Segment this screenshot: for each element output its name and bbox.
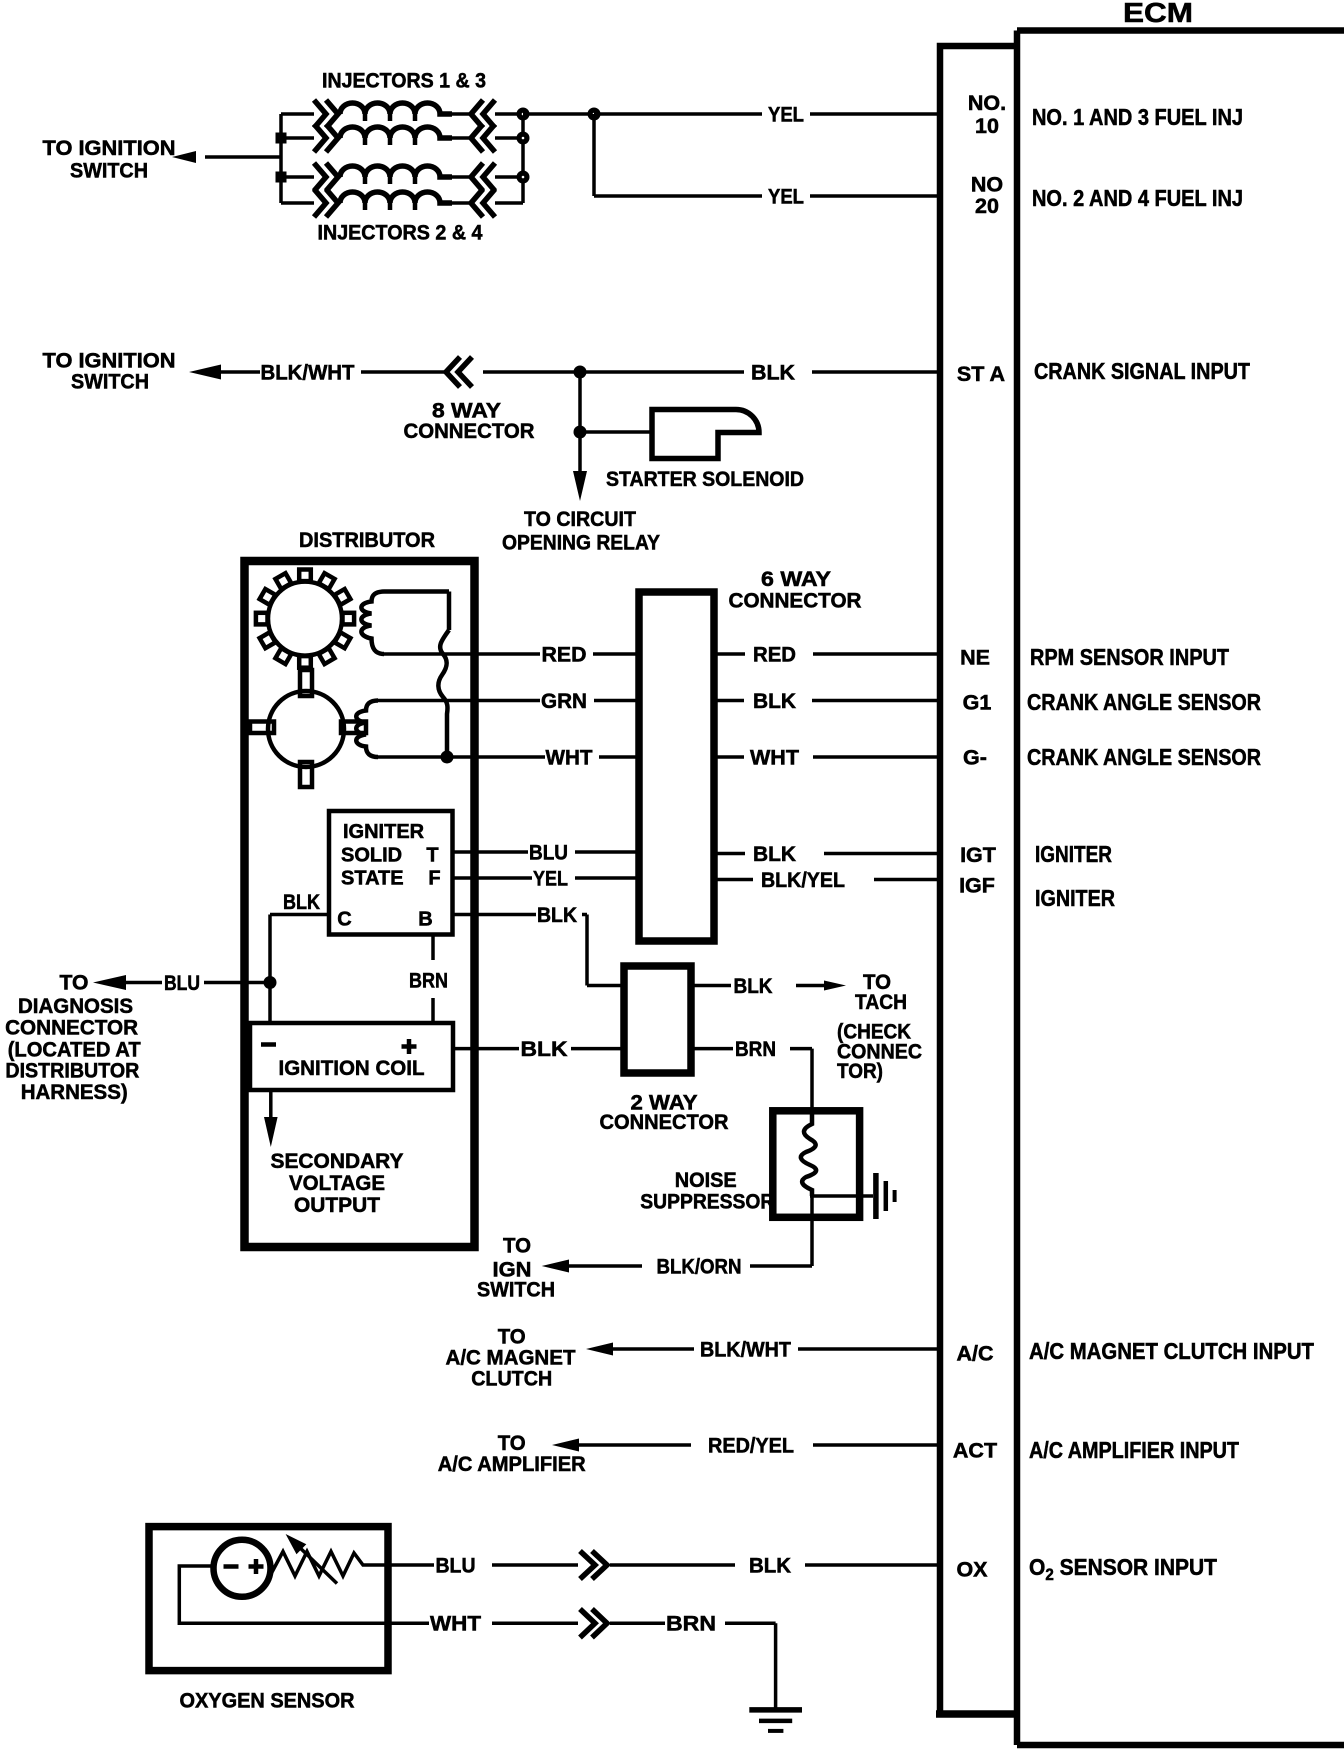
svg-text:CRANK ANGLE SENSOR: CRANK ANGLE SENSOR [1027, 689, 1261, 715]
wire BLK/YEL to pin IGF [714, 878, 940, 882]
svg-text:DISTRIBUTOR: DISTRIBUTOR [299, 528, 435, 552]
svg-text:BLK/WHT: BLK/WHT [261, 361, 355, 385]
svg-text:YEL: YEL [768, 103, 804, 127]
svg-text:BRN: BRN [666, 1612, 716, 1636]
injector supply bus (left) [279, 114, 283, 203]
oxygen sensor box [149, 1527, 388, 1671]
svg-text:RED: RED [542, 643, 587, 667]
svg-text:YEL: YEL [768, 185, 804, 209]
wire BLU (igniter T) [453, 850, 640, 854]
arrow secondary voltage output [264, 1117, 278, 1147]
svg-text:CONNECTOR: CONNECTOR [5, 1016, 138, 1040]
wire BLK to pin OX [610, 1563, 940, 1567]
sensor cell circle [214, 1540, 271, 1597]
arrow to tach [824, 981, 846, 991]
svg-text:A/C: A/C [956, 1342, 993, 1366]
junction square row2 [276, 133, 287, 144]
wire bus to injector 2 [281, 175, 314, 179]
svg-text:NE: NE [960, 646, 990, 670]
svg-text:OUTPUT: OUTPUT [294, 1193, 380, 1217]
wire BLK to pin IGT [714, 852, 940, 856]
coil leg ticks (injector 3) [365, 138, 415, 145]
sensor resistor element [272, 1552, 435, 1577]
svg-text:BLK: BLK [749, 1554, 791, 1578]
svg-text:T: T [426, 845, 438, 867]
wire BLK/WHT to pin A/C [612, 1347, 940, 1351]
svg-text:RPM SENSOR INPUT: RPM SENSOR INPUT [1030, 644, 1230, 670]
suppressor coil element [801, 1111, 816, 1196]
connector chevrons right (injector 2) [471, 163, 495, 191]
svg-text:A/C MAGNET CLUTCH INPUT: A/C MAGNET CLUTCH INPUT [1029, 1338, 1315, 1364]
wire BLK to pin G1 [714, 699, 940, 703]
svg-text:BRN: BRN [409, 969, 448, 993]
svg-text:CLUTCH: CLUTCH [471, 1367, 552, 1391]
svg-text:OXYGEN SENSOR: OXYGEN SENSOR [180, 1689, 355, 1713]
wire YEL to pin NO.10 [594, 112, 940, 116]
svg-text:O2 SENSOR INPUT: O2 SENSOR INPUT [1029, 1554, 1218, 1584]
wire BRN to ground [610, 1623, 776, 1708]
svg-text:NO. 1 AND 3 FUEL INJ: NO. 1 AND 3 FUEL INJ [1032, 104, 1243, 130]
chevron connector (BLU row) [580, 1551, 607, 1579]
coil leg ticks (injector 4) [365, 203, 415, 210]
svg-text:BLK: BLK [751, 361, 795, 385]
wire to ignition switch (top) [205, 155, 281, 159]
junction square row3 [276, 172, 287, 183]
wire BLK to tach [691, 984, 828, 988]
svg-text:HARNESS): HARNESS) [21, 1080, 128, 1104]
svg-text:SWITCH: SWITCH [70, 159, 148, 183]
svg-text:CRANK SIGNAL INPUT: CRANK SIGNAL INPUT [1034, 358, 1251, 384]
wire to ground [810, 1194, 873, 1198]
svg-text:STARTER SOLENOID: STARTER SOLENOID [606, 467, 804, 491]
ignition coil box [250, 1023, 453, 1090]
svg-text:GRN: GRN [541, 689, 587, 713]
svg-text:INJECTORS 2 & 4: INJECTORS 2 & 4 [318, 221, 483, 245]
rotor [250, 670, 366, 787]
wire coil to right connector (injector 2) [452, 175, 471, 179]
svg-text:CONNECTOR: CONNECTOR [600, 1110, 729, 1134]
svg-text:BLK: BLK [521, 1037, 569, 1061]
arrow to diagnosis connector [93, 975, 126, 990]
wire RED to pin NE [714, 652, 940, 656]
svg-text:YEL: YEL [533, 867, 568, 891]
injector 3 row [281, 124, 523, 152]
svg-text:BRN: BRN [735, 1037, 776, 1061]
svg-text:IGNITER: IGNITER [343, 821, 425, 843]
svg-text:BLU: BLU [164, 971, 200, 995]
arrow to ignition switch (top) [172, 151, 196, 163]
svg-text:TO: TO [503, 1234, 531, 1258]
resistor arrow [295, 1543, 337, 1584]
svg-text:DIAGNOSIS: DIAGNOSIS [18, 994, 133, 1018]
wire BLU to chevron [492, 1563, 578, 1567]
svg-text:VOLTAGE: VOLTAGE [289, 1171, 385, 1195]
svg-text:ECM: ECM [1123, 0, 1193, 28]
svg-text:INJECTORS 1 & 3: INJECTORS 1 & 3 [322, 69, 486, 93]
wire bus to injector 3 [281, 136, 314, 140]
- terminal [224, 1564, 239, 1569]
distributor box [245, 561, 475, 1247]
arrow to ign switch [542, 1260, 569, 1273]
svg-text:A/C AMPLIFIER INPUT: A/C AMPLIFIER INPUT [1029, 1437, 1240, 1463]
wire down to circuit opening relay [578, 432, 582, 472]
coil leg ticks (injector 2) [365, 177, 415, 184]
wire RED/YEL to pin ACT [578, 1443, 940, 1447]
junction dot bus row2 [517, 132, 530, 145]
svg-text:G-: G- [963, 746, 987, 770]
svg-text:DISTRIBUTOR: DISTRIBUTOR [5, 1059, 139, 1083]
svg-text:TACH: TACH [855, 990, 907, 1014]
junction dot diagnosis [264, 976, 277, 989]
igniter box [329, 811, 453, 935]
svg-text:TO: TO [60, 971, 89, 995]
wire BLU to diagnosis [125, 981, 270, 985]
svg-text:BLK/ORN: BLK/ORN [657, 1255, 742, 1279]
6 way connector box [639, 592, 714, 941]
svg-text:RED/YEL: RED/YEL [708, 1434, 794, 1458]
svg-text:BLK: BLK [283, 890, 320, 914]
wire to output bus (injector 4) [495, 201, 523, 205]
svg-text:TO IGNITION: TO IGNITION [43, 136, 176, 160]
coil winding (injector 3) [340, 127, 452, 138]
arrow to ignition switch (ST A row) [189, 365, 221, 380]
svg-text:CONNECTOR: CONNECTOR [729, 588, 862, 612]
junction dot bus row3 [517, 171, 530, 184]
starter solenoid [652, 410, 759, 459]
svg-text:F: F [428, 868, 440, 890]
sensor internal return wire [179, 1566, 429, 1623]
8 way connector chevrons [446, 357, 472, 387]
svg-text:ACT: ACT [953, 1439, 997, 1463]
wire node down to NO.20 row [592, 114, 596, 196]
svg-text:RED: RED [753, 643, 796, 667]
ground symbol (suppressor) [876, 1173, 895, 1219]
label + terminal [402, 1039, 417, 1054]
svg-text:10: 10 [975, 114, 999, 138]
svg-text:IGNITION COIL: IGNITION COIL [279, 1056, 425, 1080]
svg-text:G1: G1 [963, 691, 992, 715]
svg-text:BLK: BLK [537, 903, 577, 927]
noise suppressor box [773, 1111, 860, 1218]
svg-text:STATE: STATE [341, 868, 404, 890]
svg-text:CRANK ANGLE SENSOR: CRANK ANGLE SENSOR [1027, 744, 1261, 770]
wire bus to node [523, 112, 594, 116]
wire to starter solenoid [580, 430, 652, 434]
injector 4 row [281, 189, 523, 217]
ECM pin connector strip [936, 46, 1017, 1714]
svg-text:IGF: IGF [959, 874, 995, 898]
svg-text:20: 20 [975, 194, 999, 218]
wire WHT [378, 755, 639, 759]
2 way connector box [624, 966, 691, 1073]
arrow to circuit opening relay [573, 471, 587, 501]
ECM box outline [1017, 31, 1344, 1746]
wire YEL (igniter F) [453, 876, 640, 880]
coupling squiggle [438, 630, 449, 757]
arrow to A/C magnet clutch [586, 1343, 613, 1356]
injector 1 row [281, 100, 523, 128]
svg-text:SECONDARY: SECONDARY [271, 1149, 404, 1173]
svg-text:NO: NO [971, 173, 1003, 197]
connector chevrons right (injector 1) [471, 100, 495, 128]
wire secondary voltage output [269, 1090, 273, 1118]
ground symbol (bottom) [749, 1710, 802, 1731]
wire bus to injector 1 [281, 112, 314, 116]
junction dot bus row1 [517, 108, 530, 121]
svg-text:OX: OX [956, 1558, 988, 1582]
svg-text:BLU: BLU [529, 841, 568, 865]
svg-text:TOR): TOR) [837, 1059, 883, 1083]
wire RED (distributor to 6-way) [384, 652, 639, 656]
chevron connector (WHT row) [580, 1609, 607, 1638]
arrow to A/C amplifier [552, 1439, 579, 1452]
svg-text:B: B [418, 909, 432, 931]
svg-text:SUPPRESSOR: SUPPRESSOR [640, 1190, 774, 1214]
connector chevrons left (injector 1) [314, 100, 338, 128]
pickup coil 2 [356, 701, 378, 758]
svg-text:NOISE: NOISE [675, 1168, 737, 1192]
svg-text:WHT: WHT [750, 746, 799, 770]
svg-text:ST A: ST A [957, 362, 1005, 386]
wire BLK (coil + to 2-way) [453, 1047, 624, 1051]
svg-text:SWITCH: SWITCH [477, 1278, 555, 1302]
svg-text:IGNITER: IGNITER [1035, 885, 1115, 911]
wire coil to right connector (injector 4) [452, 201, 471, 205]
wire down to starter solenoid branch [578, 372, 582, 432]
svg-text:BLK/YEL: BLK/YEL [761, 868, 845, 892]
wire BLK to pin ST A [483, 370, 940, 374]
wire BLK (igniter B to 2-way) [453, 915, 625, 986]
svg-text:OPENING RELAY: OPENING RELAY [502, 531, 660, 555]
svg-text:BLU: BLU [436, 1554, 476, 1578]
wire GRN [378, 699, 639, 703]
svg-text:BLK/WHT: BLK/WHT [700, 1338, 791, 1362]
svg-text:WHT: WHT [546, 746, 593, 770]
wire WHT to pin G- [714, 755, 940, 759]
coil winding (injector 1) [340, 103, 452, 114]
wire to output bus (injector 2) [495, 175, 523, 179]
connector chevrons left (injector 4) [314, 189, 338, 217]
connector chevrons right (injector 3) [471, 124, 495, 152]
connector chevrons left (injector 2) [314, 163, 338, 191]
label - terminal [261, 1042, 276, 1047]
pickup coil 1 [361, 592, 449, 655]
svg-text:SOLID: SOLID [341, 845, 402, 867]
wire BLK (igniter C) [270, 915, 329, 1024]
svg-text:BLK: BLK [753, 689, 796, 713]
svg-text:BLK: BLK [734, 974, 773, 998]
reluctor gear wheel [256, 570, 354, 668]
svg-text:TO CIRCUIT: TO CIRCUIT [524, 507, 636, 531]
wire coil to right connector (injector 1) [452, 112, 471, 116]
svg-text:WHT: WHT [430, 1612, 481, 1636]
svg-text:BLK: BLK [753, 842, 796, 866]
wire BRN (igniter B to coil +) [431, 935, 435, 1024]
junction dot node [588, 108, 601, 121]
wire BLK/ORN down [568, 1196, 812, 1266]
coil winding (injector 2) [340, 166, 452, 177]
wire BLK/WHT [219, 370, 446, 374]
wire to output bus (injector 3) [495, 136, 523, 140]
wire to output bus (injector 1) [495, 112, 523, 116]
svg-text:NO.: NO. [968, 91, 1006, 115]
svg-text:IGT: IGT [960, 843, 996, 867]
coil winding (injector 4) [340, 192, 452, 203]
connector chevrons right (injector 4) [471, 189, 495, 217]
junction dot solenoid branch [574, 426, 587, 439]
junction dot WHT [441, 751, 454, 764]
wire BRN to noise suppressor [691, 1049, 812, 1111]
connector chevrons left (injector 3) [314, 124, 338, 152]
wire WHT to chevron [492, 1622, 578, 1626]
coil leg ticks (injector 1) [365, 114, 415, 121]
svg-text:C: C [337, 909, 351, 931]
svg-text:CONNECTOR: CONNECTOR [404, 419, 535, 443]
wire YEL to pin NO.20 [594, 194, 940, 198]
svg-text:IGNITER: IGNITER [1035, 841, 1112, 867]
svg-text:NO. 2 AND 4 FUEL INJ: NO. 2 AND 4 FUEL INJ [1032, 185, 1243, 211]
junction dot crank wire [574, 366, 587, 379]
svg-text:A/C AMPLIFIER: A/C AMPLIFIER [438, 1452, 586, 1476]
wire coil to right connector (injector 3) [452, 136, 471, 140]
injector output bus (right) [521, 114, 525, 203]
injector 2 row [281, 163, 523, 191]
+ terminal [249, 1559, 264, 1574]
wire bus to injector 4 [281, 201, 314, 205]
svg-text:SWITCH: SWITCH [71, 370, 149, 394]
